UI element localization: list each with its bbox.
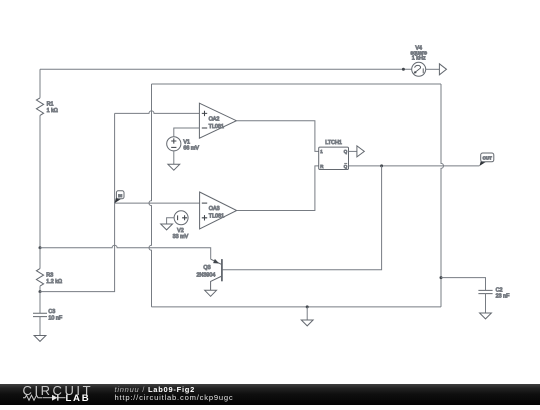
flag IN (115, 191, 124, 203)
svg-text:23 nF: 23 nF (496, 294, 510, 300)
svg-text:1 kHz: 1 kHz (412, 56, 426, 62)
svg-text:10 nF: 10 nF (48, 315, 62, 321)
svg-text:IN: IN (118, 193, 122, 198)
CircuitLab logo (0, 384, 110, 405)
box net rectangle top and corners (152, 83, 442, 85)
svg-text:C2: C2 (496, 288, 503, 294)
wire R1R3 node to Q3 top (hop over IN line) (40, 245, 211, 259)
wire C3 top lead (39, 292, 41, 314)
resistor R1 (36, 98, 57, 116)
capacitor C3 (33, 309, 63, 321)
svg-text:Q: Q (344, 149, 348, 154)
footer title text (115, 385, 196, 394)
wire V2 left to ground (167, 218, 175, 224)
flag terminal right of V4 (426, 64, 447, 75)
voltage source V2 (173, 211, 189, 240)
wire OA3 output to LTCH1 R pin (237, 166, 319, 211)
svg-text:R: R (320, 164, 323, 169)
svg-text:OUT: OUT (483, 156, 492, 161)
node dot at V4 left (402, 68, 405, 71)
svg-text:Q3: Q3 (203, 265, 210, 271)
box bottom edge (152, 306, 442, 308)
ground below C2 (480, 313, 492, 319)
node dot box bottom ground (306, 305, 309, 308)
wire top rail (40, 68, 412, 70)
wire C3 bottom lead (39, 317, 41, 336)
svg-text:1 kΩ: 1 kΩ (47, 108, 58, 114)
op-amp OA3 TL081 (200, 192, 237, 229)
wire R3 top lead (39, 248, 41, 269)
ground below V1 (168, 164, 180, 170)
svg-text:C3: C3 (48, 309, 55, 315)
wire C2 bottom lead (485, 294, 487, 313)
wire IN to OA3 - input (115, 202, 200, 204)
wire to C2 (441, 278, 486, 291)
wire LTCH1 Qbar to OUT (349, 165, 480, 167)
svg-text:OA2: OA2 (209, 117, 220, 123)
voltage source V1 (167, 137, 200, 152)
wire V1 top to OA2 - input (174, 128, 200, 137)
flag OUT (479, 153, 493, 166)
wire left rail mid (39, 115, 41, 247)
op-amp OA2 TL081 (199, 103, 236, 138)
footer url text (115, 393, 234, 402)
box left edge with hops at 203.1 and 247.8 (149, 84, 152, 307)
node dot Qbar branch (380, 164, 383, 167)
svg-text:1.2 kΩ: 1.2 kΩ (46, 279, 62, 285)
wire LTCH1 Q output (349, 150, 357, 152)
svg-text:2N3904: 2N3904 (197, 273, 216, 279)
wire OA2 output to LTCH1 pin 1 (236, 121, 318, 152)
transistor Q3 2N3904 (197, 259, 222, 290)
flag terminal at Q output (357, 146, 364, 157)
svg-text:R3: R3 (46, 273, 53, 279)
net IN vertical line (40, 113, 115, 291)
box right edge with hop over OUT wire (441, 84, 444, 307)
latch LTCH1 (319, 140, 349, 169)
wire ground stem (306, 307, 308, 320)
svg-text:LTCH1: LTCH1 (325, 140, 342, 146)
wire Qbar branch down to Q3 base (222, 166, 382, 270)
wire left rail upper (39, 69, 41, 98)
svg-text:LAB: LAB (66, 393, 91, 404)
ground below C3 (34, 336, 46, 342)
svg-text:33 mV: 33 mV (173, 234, 189, 240)
resistor R3 (36, 269, 62, 287)
ground on box bottom (301, 320, 313, 326)
capacitor C2 (478, 288, 510, 300)
node dot R3/C3/IN (39, 290, 42, 293)
svg-text:TL081: TL081 (209, 124, 224, 130)
svg-text:OA3: OA3 (209, 206, 220, 212)
wire V1 bottom lead (173, 151, 175, 164)
wire to OA2 + input (hop over box edge) (115, 111, 200, 114)
wire R3 bottom lead (39, 286, 41, 292)
svg-text:Q: Q (344, 164, 348, 169)
svg-text:R1: R1 (47, 102, 54, 108)
node dot C2 branch (440, 276, 443, 279)
ground below Q3 (205, 290, 217, 296)
svg-text:TL081: TL081 (209, 213, 224, 219)
ground left of V2 (161, 224, 173, 230)
voltage source V4 (410, 45, 426, 76)
svg-text:66 mV: 66 mV (183, 145, 199, 151)
node dot R1/R3 (39, 246, 42, 249)
